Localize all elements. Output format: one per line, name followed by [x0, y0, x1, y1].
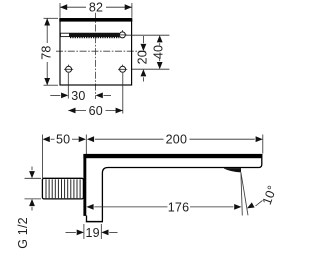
dim 30 extension lines [67, 73, 69, 99]
dim 20 arrow bottom (points up) [141, 69, 147, 76]
G1/2 dim arrow top (points down) [29, 171, 35, 178]
nozzle wedge [224, 168, 241, 172]
svg-text:82: 82 [89, 1, 103, 15]
dim 50 arrow left [43, 136, 50, 142]
dim 40 arrow top (points up) [157, 35, 163, 42]
spout arm top bar [83, 154, 262, 158]
dim 82 arrow right [125, 4, 132, 10]
dim 78 extension lines [44, 17, 59, 19]
drop bottom edge [86, 221, 103, 223]
dim 82 extension lines [59, 3, 61, 18]
dim 50 arrow right [79, 136, 86, 142]
vertical centerline [95, 13, 97, 99]
body outline (top view) [60, 19, 132, 85]
dim 30 line tails [50, 94, 60, 96]
right ext line lower (holes level) [132, 68, 170, 70]
dim 78 line [46, 18, 48, 43]
drop left lower edge [86, 216, 88, 222]
svg-text:19: 19 [85, 226, 99, 240]
spout arm right edge [259, 154, 262, 168]
drop inner/right edge [101, 173, 103, 222]
slot circle ticks [118, 34, 127, 36]
front edge black bar [59, 18, 132, 21]
threaded pipe body [42, 178, 83, 199]
dim 60 line [68, 110, 86, 112]
dim 82 line [60, 6, 86, 8]
dim 40 arrow bottom (points down) [157, 62, 163, 69]
dim 19 line tails [66, 231, 76, 233]
slot end circle [119, 32, 125, 38]
aerator slot outline [61, 33, 119, 36]
dim 40 line [159, 43, 161, 45]
10deg leader arrow [247, 202, 255, 208]
svg-text:50: 50 [56, 133, 70, 147]
dim 50 line [51, 138, 55, 140]
dim 200 arrow left [87, 136, 94, 142]
svg-text:40: 40 [152, 45, 166, 59]
right ext line upper (slot level) [126, 34, 170, 36]
dim 19 ext lines [83, 224, 85, 239]
dim 78 arrow top [44, 18, 50, 25]
svg-text:20: 20 [135, 50, 149, 64]
horizontal centerline [56, 50, 146, 52]
wall plate thick edge [83, 154, 86, 216]
screw hole right [120, 66, 126, 72]
screw hole left [66, 66, 72, 72]
spout arm underside [108, 167, 259, 169]
stream line tilted [241, 172, 248, 215]
aerator teeth [70, 36, 119, 38]
dim 200 arrow right [256, 136, 263, 142]
svg-text:78: 78 [39, 45, 53, 59]
shared ext line [85, 135, 87, 155]
dim 200 ext line right [262, 135, 264, 154]
dim 19 arrow right (points left) [101, 230, 108, 236]
dim 60 arrow right [116, 108, 123, 114]
aerator slot dark fill [69, 33, 120, 37]
dim 50 ext line left [42, 135, 44, 179]
G1/2 dim arrow bottom (points up) [29, 199, 35, 206]
dim 82 arrow left [60, 4, 67, 10]
dim 19 arrow left (points right) [77, 230, 84, 236]
inner corner radius [102, 168, 108, 174]
dim 20 arrow top (points down) [141, 44, 147, 51]
dim 78 arrow bottom [44, 78, 50, 85]
stream line vertical [241, 172, 242, 215]
G1/2 ext lines [25, 177, 42, 179]
dim 176 arrow right [234, 204, 241, 210]
svg-text:30: 30 [71, 89, 85, 103]
dim 20 line tails [142, 36, 144, 43]
dim 30 arrow left (points right) [61, 93, 68, 99]
dim 60 extension line right [122, 73, 124, 114]
dim 200 line [95, 138, 164, 140]
svg-text:G 1/2: G 1/2 [16, 217, 30, 249]
svg-text:176: 176 [168, 200, 189, 214]
dim 176 arrow left [86, 204, 93, 210]
dim 176 line [94, 206, 167, 208]
dim 30 arrow right (points left) [96, 93, 103, 99]
dim 60 arrow left [68, 108, 75, 114]
pipe thread hatching [46, 179, 80, 198]
svg-text:60: 60 [89, 104, 103, 118]
svg-text:200: 200 [166, 133, 187, 147]
